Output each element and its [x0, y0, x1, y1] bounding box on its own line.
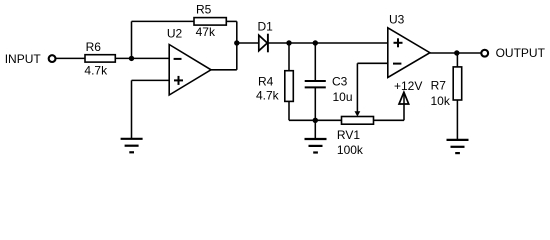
svg-text:OUTPUT: OUTPUT — [496, 46, 546, 60]
wire — [403, 94, 405, 121]
svg-text:100k: 100k — [337, 143, 364, 157]
diode D1 — [259, 34, 268, 53]
svg-text:10u: 10u — [333, 90, 353, 104]
wire — [237, 42, 260, 44]
svg-text:4.7k: 4.7k — [84, 63, 108, 77]
svg-text:R4: R4 — [258, 74, 274, 88]
RV1 wiper arrow — [355, 111, 361, 116]
wire — [357, 62, 387, 64]
output terminal — [481, 50, 488, 57]
node B junction (U2 out) — [234, 40, 239, 45]
wire — [314, 120, 316, 139]
node D junction (C3 top) — [313, 40, 318, 45]
wire — [131, 80, 133, 138]
wire — [236, 21, 238, 69]
svg-text:RV1: RV1 — [337, 128, 360, 142]
svg-text:U2: U2 — [167, 26, 183, 40]
node F junction (R7 top) — [454, 50, 459, 55]
svg-text:+12V: +12V — [394, 79, 422, 93]
wire — [314, 43, 316, 80]
wire — [374, 119, 405, 121]
U3 minus pin symbol — [393, 63, 401, 65]
resistor R6 — [85, 55, 115, 62]
wire — [456, 100, 458, 140]
wire — [211, 69, 237, 71]
wire — [288, 43, 290, 71]
wire (bottom rail) — [289, 119, 342, 121]
svg-text:U3: U3 — [389, 12, 405, 26]
node A junction — [129, 56, 134, 61]
op-amp U2 — [169, 45, 211, 96]
+12V power arrow — [399, 92, 409, 104]
wire — [55, 57, 85, 59]
wire — [268, 42, 388, 44]
svg-text:R5: R5 — [196, 2, 212, 16]
svg-text:D1: D1 — [258, 20, 274, 34]
wire — [430, 52, 481, 54]
U2 minus pin symbol — [174, 58, 182, 60]
input terminal — [49, 55, 56, 62]
wire — [456, 53, 458, 67]
wire — [226, 20, 237, 22]
U3 plus pin symbol — [394, 38, 403, 47]
ground (U2 +) — [121, 139, 143, 153]
svg-text:47k: 47k — [196, 25, 216, 39]
svg-text:INPUT: INPUT — [5, 52, 42, 66]
resistor R7 — [453, 67, 462, 100]
ground (R7) — [447, 140, 469, 153]
wire — [132, 20, 195, 22]
svg-text:C3: C3 — [332, 74, 348, 88]
wire — [131, 21, 133, 58]
wire — [132, 79, 170, 81]
wire — [314, 87, 316, 120]
resistor R4 — [285, 71, 294, 102]
U2 plus pin symbol — [174, 76, 183, 85]
svg-text:4.7k: 4.7k — [256, 89, 280, 103]
svg-text:R7: R7 — [431, 78, 447, 92]
svg-text:R6: R6 — [86, 40, 102, 54]
node E junction (rail/C3) — [313, 118, 318, 123]
capacitor C3 — [305, 81, 326, 87]
wire — [356, 63, 358, 111]
svg-text:10k: 10k — [431, 94, 451, 108]
potentiometer RV1 — [342, 117, 374, 125]
resistor R5 — [194, 18, 226, 26]
wire — [115, 57, 169, 59]
wire — [288, 101, 290, 120]
ground (C3) — [305, 139, 327, 153]
op-amp U3 — [388, 28, 430, 78]
node C junction (R4 top) — [286, 40, 291, 45]
